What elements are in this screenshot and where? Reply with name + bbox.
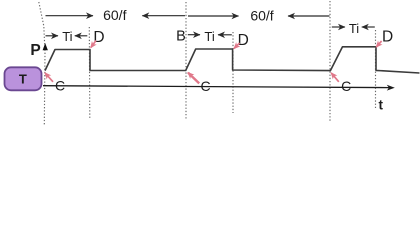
interval arrow 60/f (period 1, left part) bbox=[46, 15, 94, 17]
dotted guide line V1 (pulse1 start) bbox=[39, 2, 45, 126]
time axis with arrowhead bbox=[43, 86, 389, 88]
red pointer to falling edge D (pulse 2) bbox=[234, 43, 240, 49]
impulse width arrow Ti (pulse 1, left) bbox=[46, 35, 59, 37]
svg-text:D: D bbox=[382, 28, 393, 45]
svg-text:Ti: Ti bbox=[62, 29, 72, 44]
impulse width arrow Ti (pulse 1, right) bbox=[75, 35, 88, 37]
svg-text:60/f: 60/f bbox=[250, 7, 273, 23]
interval arrow 60/f (period 2, left part) bbox=[188, 15, 239, 17]
red pointer to rising corner C (pulse 1) bbox=[45, 73, 53, 82]
dotted guide line V6 (pulse3 end) bbox=[375, 30, 377, 108]
svg-text:60/f: 60/f bbox=[103, 7, 126, 23]
impulse width arrow Ti (pulse 2, right) bbox=[218, 34, 232, 36]
dotted guide line V2 (pulse1 end) bbox=[88, 27, 91, 119]
svg-text:D: D bbox=[238, 32, 249, 49]
svg-text:C: C bbox=[341, 78, 351, 94]
block T (stimulator box) bbox=[5, 67, 42, 90]
pacing marker arrow P bbox=[43, 43, 48, 50]
red pointer to rising corner C (pulse 2) bbox=[188, 73, 199, 84]
signal waveform (3 stimulation pulses) bbox=[45, 47, 420, 73]
red pointer to falling edge D (pulse 3) bbox=[376, 41, 381, 47]
impulse width arrow Ti (pulse 3, left) bbox=[332, 26, 345, 28]
impulse width arrow Ti (pulse 3, right) bbox=[362, 26, 375, 28]
interval arrow 60/f (period 1, right part) bbox=[142, 15, 185, 17]
svg-text:Ti: Ti bbox=[204, 29, 214, 44]
svg-text:t: t bbox=[378, 98, 383, 113]
svg-text:C: C bbox=[55, 78, 65, 94]
dotted guide line V5 (pulse3 start) bbox=[329, 1, 331, 122]
dotted guide line V3 (pulse2 start) bbox=[185, 2, 187, 120]
svg-text:C: C bbox=[200, 78, 210, 94]
svg-text:Ti: Ti bbox=[349, 21, 359, 36]
impulse width arrow Ti (pulse 2, left) bbox=[188, 34, 200, 36]
red pointer to rising corner C (pulse 3) bbox=[331, 73, 339, 82]
svg-text:T: T bbox=[19, 72, 27, 87]
svg-text:P: P bbox=[30, 42, 40, 59]
interval arrow 60/f (period 2, right part) bbox=[288, 15, 330, 17]
dotted guide line V4 (pulse2 end) bbox=[232, 32, 234, 113]
svg-text:B: B bbox=[176, 29, 186, 45]
red pointer to falling edge D (pulse 1) bbox=[91, 41, 96, 48]
svg-text:D: D bbox=[93, 29, 104, 46]
